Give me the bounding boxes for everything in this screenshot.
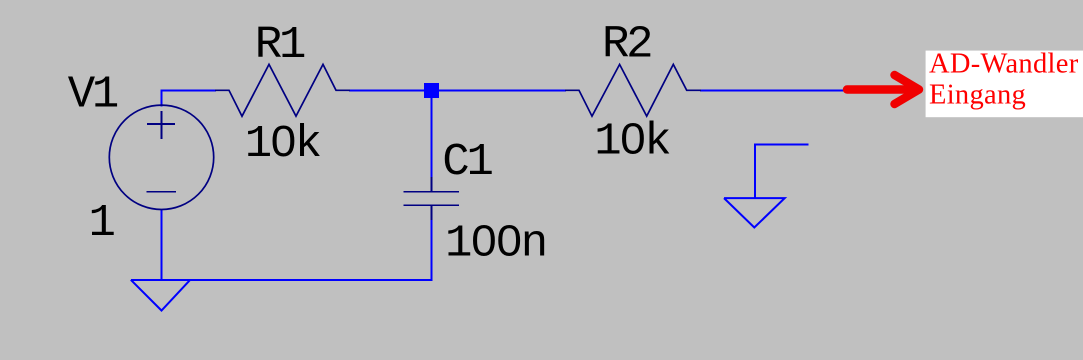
svg-text:R2: R2: [602, 19, 654, 71]
svg-text:AD-Wandler: AD-Wandler: [929, 49, 1079, 80]
svg-text:V1: V1: [68, 68, 120, 120]
svg-text:100n: 100n: [445, 217, 548, 269]
svg-text:1: 1: [89, 197, 116, 249]
svg-text:R1: R1: [255, 19, 307, 71]
svg-text:C1: C1: [442, 136, 494, 188]
svg-text:Eingang: Eingang: [929, 80, 1026, 111]
